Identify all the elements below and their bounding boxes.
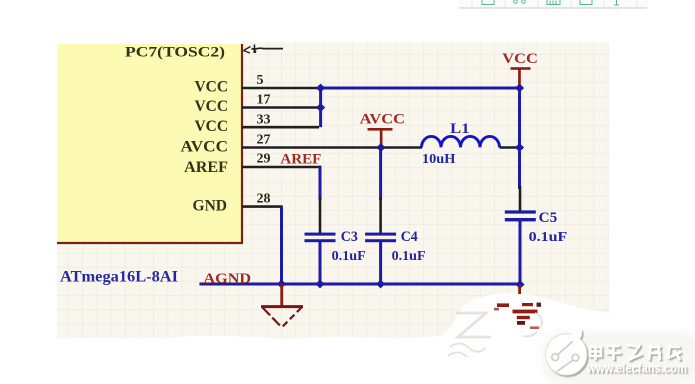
faint gray ghost marks <box>448 313 542 357</box>
svg-text:27: 27 <box>257 133 271 148</box>
pin 17 stub wire <box>242 106 319 109</box>
junction AVCC/rail/C4 <box>376 143 385 152</box>
ground symbol triangle <box>261 307 303 327</box>
capacitor C5 bottom wire <box>519 220 522 285</box>
svg-text:5: 5 <box>257 73 264 88</box>
wire: AGND bottom rail <box>199 283 520 286</box>
junction pin17/bus <box>316 103 325 112</box>
wire: inductor to VCC line <box>500 146 519 149</box>
capacitor C5 plates <box>505 210 536 221</box>
svg-text:0.1uF: 0.1uF <box>529 230 568 245</box>
capacitor C4 plates <box>365 233 396 243</box>
svg-text:0.1uF: 0.1uF <box>392 249 426 264</box>
svg-text:VCC: VCC <box>195 98 229 115</box>
schematic canvas background <box>0 0 609 343</box>
svg-text:28: 28 <box>257 191 271 206</box>
crystal stub on PC7(TOSC2) <box>244 45 284 54</box>
svg-text:0.1uF: 0.1uF <box>332 249 366 264</box>
junction inductor/VCC line <box>515 143 524 152</box>
svg-text:VCC: VCC <box>195 118 229 135</box>
svg-text:L1: L1 <box>450 121 469 137</box>
pin 28 stub wire <box>242 205 283 208</box>
wire: top rail to VCC <box>317 87 520 90</box>
svg-text:10uH: 10uH <box>422 152 456 167</box>
svg-text:C3: C3 <box>341 229 358 245</box>
capacitor C4 top pin <box>379 197 382 233</box>
junction top rail / VCC <box>515 84 524 93</box>
junction C3/rail <box>315 280 324 289</box>
elecfans watermark logo circle <box>542 329 695 384</box>
junction pin5/bus <box>316 84 325 93</box>
svg-text:33: 33 <box>257 112 271 127</box>
capacitor C5 top pin <box>519 186 522 211</box>
svg-text:AREF: AREF <box>184 159 228 176</box>
capacitor C3 top pin <box>319 197 322 233</box>
svg-text:C4: C4 <box>401 229 418 245</box>
wire: VCC pins bus vertical <box>319 87 322 128</box>
svg-text:AGND: AGND <box>204 271 252 287</box>
svg-text:AVCC: AVCC <box>181 139 229 156</box>
junction GND/rail <box>277 280 286 289</box>
covered red ground fragments under C5 <box>494 303 541 329</box>
svg-text:PC7(TOSC2): PC7(TOSC2) <box>125 45 225 61</box>
svg-text:C5: C5 <box>539 210 558 226</box>
svg-text:17: 17 <box>257 93 271 108</box>
white watermark blob over bottom <box>57 293 695 384</box>
svg-text:www.elecfans.com: www.elecfans.com <box>586 362 687 376</box>
svg-text:GND: GND <box>193 197 228 214</box>
browser toolbar fragment <box>458 0 648 9</box>
wire: AREF down to C3 <box>319 166 322 200</box>
inductor L1 <box>422 136 500 147</box>
capacitor C4 bottom wire <box>379 242 382 285</box>
svg-text:VCC: VCC <box>502 51 538 67</box>
ground stub under C5 (partially covered) <box>518 285 521 306</box>
pin 29 stub wire <box>242 166 319 169</box>
wire: GND pin vertical <box>280 207 283 284</box>
power port VCC bar <box>511 67 531 86</box>
svg-text:ATmega16L-8AI: ATmega16L-8AI <box>60 269 178 286</box>
ground stub wire <box>280 284 283 306</box>
wire: AVCC junction down to C4 <box>379 148 382 201</box>
pin 27 stub wire to inductor <box>242 146 422 149</box>
elecfans watermark Chinese title 电子发烧友 (stylized) <box>590 344 681 360</box>
capacitor C3 bottom wire <box>319 242 322 285</box>
capacitor C3 plates <box>305 233 336 243</box>
svg-text:29: 29 <box>257 152 271 167</box>
junction C5/rail <box>515 280 524 289</box>
pin 5 stub wire <box>242 87 319 90</box>
svg-text:AVCC: AVCC <box>360 112 405 128</box>
IC U1 body (ATmega16L-8AI, cropped at left/top) <box>57 44 243 244</box>
power port AVCC bar <box>368 128 393 147</box>
junction C4/rail <box>376 280 385 289</box>
pin 33 stub wire <box>242 126 319 129</box>
svg-text:AREF: AREF <box>280 151 321 167</box>
wire: VCC vertical <box>518 87 521 190</box>
svg-text:VCC: VCC <box>195 79 229 96</box>
